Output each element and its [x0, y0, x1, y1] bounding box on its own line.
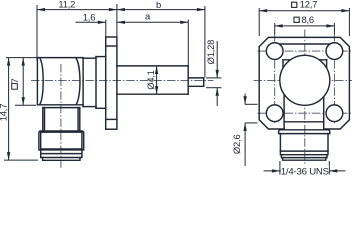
svg-text:8,6: 8,6: [301, 14, 313, 25]
svg-text:Ø1,28: Ø1,28: [205, 40, 216, 65]
svg-text:Ø4,1: Ø4,1: [145, 70, 156, 90]
svg-text:11,2: 11,2: [58, 0, 75, 10]
svg-text:b: b: [156, 0, 161, 10]
svg-text:14,7: 14,7: [0, 104, 8, 121]
svg-text:1,6: 1,6: [83, 11, 95, 22]
svg-text:12,7: 12,7: [300, 0, 317, 10]
svg-text:7: 7: [9, 78, 20, 83]
svg-text:1/4-36 UNS: 1/4-36 UNS: [281, 167, 329, 178]
svg-text:Ø2,6: Ø2,6: [231, 135, 242, 155]
